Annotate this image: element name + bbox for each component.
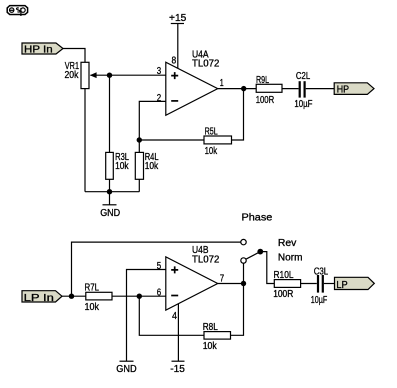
svg-text:R10L: R10L [274, 270, 294, 281]
svg-text:10µF: 10µF [311, 295, 328, 306]
svg-text:10k: 10k [85, 302, 100, 313]
svg-text:R5L: R5L [205, 127, 218, 138]
svg-text:100R: 100R [256, 95, 275, 106]
svg-text:LP: LP [336, 280, 348, 291]
svg-text:HP In: HP In [24, 45, 53, 56]
svg-text:5: 5 [157, 261, 162, 272]
svg-text:10k: 10k [115, 161, 129, 172]
svg-text:C3L: C3L [314, 267, 329, 278]
svg-text:2: 2 [157, 93, 162, 104]
svg-text:TL072: TL072 [192, 59, 220, 70]
svg-text:3: 3 [157, 66, 162, 77]
svg-text:10µF: 10µF [294, 99, 312, 110]
svg-text:+15: +15 [169, 13, 187, 24]
svg-text:20k: 20k [65, 70, 80, 81]
svg-text:Norm: Norm [278, 253, 303, 264]
svg-text:GND: GND [116, 364, 136, 375]
svg-text:100R: 100R [273, 289, 293, 300]
svg-text:GND: GND [100, 208, 120, 219]
svg-text:Rev: Rev [278, 238, 297, 249]
svg-text:-15: -15 [170, 364, 185, 375]
svg-text:R7L: R7L [85, 283, 100, 294]
svg-text:10k: 10k [203, 341, 218, 352]
svg-text:10k: 10k [145, 161, 159, 172]
svg-text:1: 1 [220, 78, 224, 89]
svg-text:R8L: R8L [203, 322, 218, 333]
svg-text:C2L: C2L [296, 71, 311, 82]
svg-text:Phase: Phase [242, 213, 273, 224]
svg-text:TL072: TL072 [192, 255, 220, 266]
svg-text:HP: HP [337, 85, 350, 96]
svg-text:4: 4 [172, 311, 177, 322]
svg-text:10k: 10k [205, 146, 218, 157]
svg-text:6: 6 [157, 288, 162, 299]
svg-text:LP In: LP In [24, 293, 54, 304]
svg-text:R9L: R9L [256, 75, 269, 86]
